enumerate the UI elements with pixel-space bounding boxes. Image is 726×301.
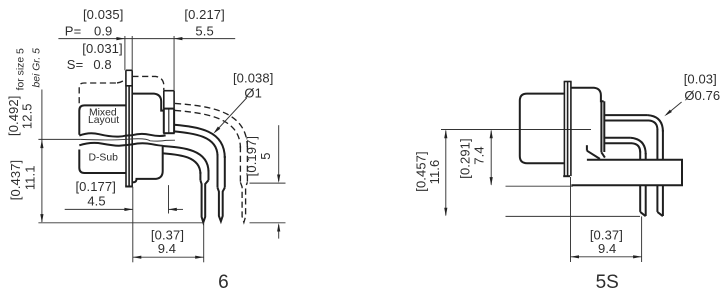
svg-text:D-Sub: D-Sub xyxy=(88,153,118,164)
svg-text:5S: 5S xyxy=(596,272,619,293)
phantom nose (size 5) xyxy=(164,91,174,109)
svg-text:[0.035]: [0.035] xyxy=(83,7,123,22)
svg-text:11.6: 11.6 xyxy=(427,160,442,185)
leader and diameter note 0.76 xyxy=(666,102,681,115)
mounting flange (full height, crosses break) xyxy=(125,86,133,187)
centerline through break xyxy=(38,139,175,141)
dimension 9.4 (left view) xyxy=(133,187,204,262)
svg-text:Layout: Layout xyxy=(88,115,119,126)
svg-text:4.5: 4.5 xyxy=(87,194,105,209)
svg-text:5.5: 5.5 xyxy=(195,24,213,39)
svg-text:7.4: 7.4 xyxy=(472,146,487,164)
svg-text:[0.038]: [0.038] xyxy=(233,70,273,85)
svg-text:[0.291]: [0.291] xyxy=(458,138,473,178)
upper pin (right view) bent down xyxy=(604,115,663,216)
centerline between pin rows xyxy=(441,129,591,131)
svg-text:[0.217]: [0.217] xyxy=(184,7,224,22)
body: left box xyxy=(520,94,564,164)
svg-text:6: 6 xyxy=(218,272,229,293)
pin of bottom half (solid, bend radius small) xyxy=(163,146,209,222)
vertical dimension 11.6 xyxy=(441,130,640,217)
svg-text:9.4: 9.4 xyxy=(158,241,176,256)
pin of top half (solid, bend radius large) xyxy=(174,125,225,222)
svg-text:0.8: 0.8 xyxy=(93,57,111,72)
svg-text:5: 5 xyxy=(258,152,273,159)
svg-text:for size 5: for size 5 xyxy=(15,48,26,90)
svg-text:[0.437]: [0.437] xyxy=(8,160,23,200)
svg-text:S=: S= xyxy=(67,57,83,72)
dashed phantom pin (size 5), bent 90 deg xyxy=(175,103,247,222)
mating face plate xyxy=(601,101,605,157)
body: right section xyxy=(571,88,603,159)
svg-text:[0.03]: [0.03] xyxy=(684,72,717,87)
vertical dimension 7.4 xyxy=(491,131,573,187)
lower pin (right view) bent down xyxy=(604,138,645,216)
body bottom half: right section xyxy=(132,146,163,182)
svg-text:[0.492]: [0.492] xyxy=(6,96,21,136)
flange (right view) xyxy=(563,81,571,176)
body top half: left box (Mixed Layout shell) xyxy=(79,105,126,134)
vertical dimension 12.5 / 11.1 xyxy=(38,90,285,223)
svg-text:[0.177]: [0.177] xyxy=(75,179,115,194)
top dimension line (P and 5.5) xyxy=(58,36,235,91)
dimension 9.4 (right view) xyxy=(571,177,642,262)
svg-text:0.9: 0.9 xyxy=(94,24,112,39)
solder tail bar (straight pins row) xyxy=(571,160,682,186)
svg-text:Ø1: Ø1 xyxy=(244,85,262,100)
svg-text:9.4: 9.4 xyxy=(598,241,616,256)
leader and diameter note for pin (1 mm) xyxy=(215,98,247,132)
dimension 5 (pin tip length) xyxy=(250,125,286,238)
svg-text:[0.031]: [0.031] xyxy=(82,41,122,56)
break lines (wavy) between the two half views xyxy=(79,133,165,146)
nose / insulator (top half) xyxy=(163,109,175,134)
body bottom half: left box (D-Sub shell) xyxy=(79,150,126,174)
svg-text:12.5: 12.5 xyxy=(20,103,35,129)
svg-text:bei Gr. 5: bei Gr. 5 xyxy=(31,48,42,88)
dashed phantom body outline (size 5), top half xyxy=(79,76,164,103)
svg-text:Ø0.76: Ø0.76 xyxy=(684,88,720,103)
svg-text:P=: P= xyxy=(65,24,81,39)
dimension 4.5 xyxy=(65,185,183,213)
dashed phantom flange extension (size 5) xyxy=(126,70,132,85)
svg-text:11.1: 11.1 xyxy=(22,165,37,190)
body top half: right section xyxy=(132,94,164,111)
